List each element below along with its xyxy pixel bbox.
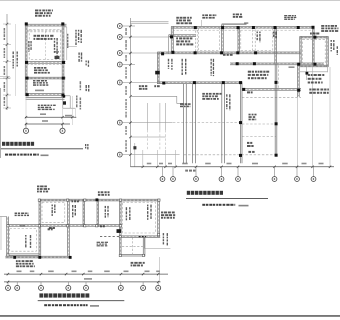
- plan2 mid wall xB: [193, 84, 196, 164]
- plan3 rotated note room2: [72, 205, 76, 217]
- plan3 note 240x a: [49, 227, 55, 229]
- plan2 rotated note x264: [273, 32, 277, 39]
- plan2 dim number: [302, 163, 307, 165]
- plan2 grid line x330: [329, 67, 331, 166]
- plan2 vert x147: [146, 103, 148, 130]
- plan2 ext line x142.8: [142, 150, 144, 166]
- plan3 left edge line: [0, 216, 7, 218]
- plan2 rotated note x168: [168, 59, 173, 70]
- plan1 title underline: [1, 148, 84, 150]
- plan1 left dim text: [4, 28, 6, 40]
- plan2 column (240.5,155.4): [239, 154, 242, 157]
- plan2 rotated note right edge: [331, 40, 335, 51]
- plan2 column (298.7,90.2): [297, 89, 300, 92]
- plan2 raised parapet line: [222, 23, 247, 25]
- plan3 note 240x b: [100, 225, 105, 227]
- plan2 wall x157: [157, 52, 159, 84]
- plan2 rotated note far right: [337, 46, 338, 55]
- plan2 axis circle x162.5: [160, 177, 165, 182]
- plan3 note above middle: [98, 191, 110, 195]
- plan2 rotated note R: [226, 94, 230, 110]
- plan2 column (240.5,82.6): [239, 81, 242, 84]
- plan3 axis circle x120.8: [118, 285, 123, 290]
- plan1 interior dashed line: [44, 31, 46, 61]
- plan2 left axis circle y154.6: [117, 152, 122, 157]
- plan2 left axis circle y37: [117, 35, 122, 40]
- plan2 axis leader line: [122, 82, 157, 84]
- plan2 column (237.8,52.8): [236, 51, 239, 54]
- plan2 axis circle x173: [171, 177, 176, 182]
- plan2 dim number: [319, 163, 324, 165]
- plan3 middle wall: [7, 225, 122, 227]
- plan1 top wall: [25, 24, 66, 26]
- plan3 rotated note room5: [147, 205, 152, 220]
- plan3 note 5L-10B: [15, 213, 29, 217]
- plan1 left dim text: [4, 82, 6, 92]
- plan3 title underline: [38, 300, 125, 302]
- plan2 note N: [309, 89, 329, 94]
- plan2 column (238,27.6): [237, 26, 240, 29]
- plan3 open column (120.3,236.6): [119, 236, 121, 238]
- plan2 dashed vert x253: [252, 30, 254, 52]
- plan3 open column (7.9,255.0): [7, 254, 9, 256]
- plan3 rotated note room4: [126, 207, 131, 220]
- plan3 rotated note room3: [105, 206, 109, 218]
- plan2 left dim text: [125, 67, 127, 79]
- plan2 wall x240 lower: [240, 82, 242, 163]
- plan3 step line y248: [144, 248, 170, 250]
- plan2 column (223.3,82.6): [222, 81, 225, 84]
- plan2 left axis circle y82.5: [117, 80, 122, 85]
- plan2 wall x221 upper: [222, 24, 224, 52]
- plan1 extension line: [15, 24, 17, 96]
- plan2 note V: [247, 142, 254, 147]
- plan3 note above left: [37, 186, 50, 193]
- plan2 small room left line: [168, 35, 170, 54]
- plan2 left dim line: [130, 18, 132, 167]
- float note c: [85, 144, 89, 149]
- plan1 left leader b: [0, 78, 10, 80]
- plan2 note D: [284, 15, 296, 20]
- plan1 column top-right: [61, 22, 64, 25]
- plan1 column mid-right: [62, 61, 65, 64]
- plan2 column (163.8,83.0): [162, 82, 165, 85]
- plan1 right outer line: [66, 27, 68, 60]
- plan2 left dim text: [125, 126, 127, 135]
- plan2 mid wall xC: [222, 84, 225, 164]
- plan2 ext line x175.7: [175, 150, 177, 166]
- plan3 open column (158.9,200.1): [158, 199, 160, 201]
- plan2 column (194.4,82.6): [193, 81, 196, 84]
- plan2 left axis circle y53: [117, 51, 122, 56]
- plan1 step column: [63, 95, 65, 97]
- plan2 dashed line y136: [242, 136, 276, 138]
- plan2 small room top wall: [169, 35, 196, 37]
- plan1 right annotation lower: [78, 53, 82, 62]
- plan2 dashed vert x278: [278, 66, 280, 89]
- plan3 note below stair: [131, 262, 145, 267]
- plan2 axis circle x274.5: [272, 177, 277, 182]
- plan2 wall x238 upper: [238, 27, 240, 52]
- plan2 ext line x165.5: [165, 150, 167, 166]
- plan3 dim 178: [20, 225, 26, 227]
- plan2 mid wall xA: [184, 84, 187, 164]
- plan1 dim 363: [42, 120, 48, 122]
- plan2 bottom dim line: [131, 166, 335, 168]
- plan2 grid line x312: [311, 65, 313, 166]
- plan2 axis circle x238: [236, 177, 241, 182]
- plan2 axis leader line: [122, 122, 172, 124]
- plan2 left dim text: [125, 99, 127, 110]
- plan1 right dim text a: [80, 81, 82, 90]
- plan2 dim 180: [289, 66, 295, 68]
- float note b: [86, 85, 90, 92]
- plan2 note C: [233, 14, 243, 18]
- plan2 axis leader line: [122, 64, 135, 66]
- plan2 note K: [248, 71, 269, 80]
- plan3 open column (96.7,225.8): [96, 225, 98, 227]
- plan2 dim number: [252, 163, 258, 165]
- plan2 dashed line y97: [242, 96, 301, 98]
- plan3 axis circle x41: [39, 285, 44, 290]
- plan2 wall x275 upper: [275, 28, 277, 64]
- plan2 dim number: [159, 163, 163, 165]
- plan1 column right y78: [62, 77, 65, 80]
- plan1 middle wall: [26, 62, 66, 64]
- plan3 left wall: [7, 217, 9, 257]
- plan2 dashed wall y89: [242, 89, 301, 91]
- plan2 note M: [308, 74, 325, 84]
- plan3 open column (7.9,225.8): [7, 225, 9, 227]
- plan2 column (314.9,37.2): [313, 36, 316, 39]
- plan3 stair right wall: [143, 237, 145, 256]
- plan3 total dim 960: [84, 278, 92, 280]
- plan3 rotated note right of stair: [163, 233, 168, 245]
- plan1 left dim line: [6, 14, 8, 110]
- plan2 column (221.6,52.8): [220, 51, 223, 54]
- plan3 note left of stair: [97, 242, 108, 247]
- plan3 open column (84.8,225.8): [84, 225, 86, 227]
- plan2 column x307: [306, 72, 309, 75]
- plan3 axis circle x68.3: [66, 285, 71, 290]
- plan3 room4 inner dashed: [123, 202, 156, 233]
- plan3 note right of plan: [161, 212, 175, 219]
- plan2 right room top wall: [300, 36, 329, 38]
- plan2 right room bottom wall: [300, 65, 329, 67]
- plan2 note Q: [202, 93, 221, 100]
- plan1 left inner rotated text: [28, 41, 31, 52]
- plan1 subtitle elevation: [41, 155, 49, 157]
- plan3 dim line 1: [4, 273, 168, 275]
- plan2 subtitle: [202, 204, 235, 206]
- plan2 column (243.7,89.4): [242, 88, 245, 91]
- plan3 subtitle: [44, 304, 87, 306]
- plan3 wall x68: [68, 199, 70, 256]
- plan3 rotated note room1: [52, 205, 56, 216]
- plan3 open column (39.3,200.1): [38, 199, 40, 201]
- plan2 rotated note x210: [211, 59, 215, 76]
- plan2 column (276.1,123.8): [275, 122, 278, 125]
- plan1 right dim text b: [76, 96, 78, 108]
- plan2 column (195.3,27.6): [194, 26, 197, 29]
- plan2 room inner dashed B: [241, 28, 273, 50]
- plan3 note J-4: [48, 228, 53, 230]
- plan1 column bottom-right: [62, 94, 65, 97]
- plan2 column (254.4,63.7): [253, 62, 256, 65]
- plan2 wall y63: [230, 63, 324, 65]
- plan2 right room left wall: [300, 36, 302, 63]
- plan2 short vert x306: [305, 67, 307, 80]
- plan1 column mid-left: [25, 61, 28, 64]
- plan2 left dim text: [125, 86, 127, 95]
- plan3 open column (39.3,225.8): [38, 225, 40, 227]
- plan2 left outer wall: [171, 26, 173, 51]
- plan1 dim 483: [40, 113, 46, 115]
- plan3 stair bottom wall: [120, 254, 145, 256]
- plan3 dim number: [88, 271, 93, 273]
- plan2 axis circle x313.5: [311, 177, 316, 182]
- plan1 note above top wall: [35, 10, 53, 17]
- plan2 left dim text: [125, 28, 127, 35]
- plan1 axis circle 7: [60, 128, 65, 133]
- plan2 note B leader: [201, 20, 203, 27]
- plan2 line y96: [131, 95, 177, 97]
- plan1 right dim text c: [80, 98, 82, 110]
- plan2 column (314.9,64.2): [313, 63, 316, 66]
- plan3 dim number: [104, 271, 110, 273]
- float note a: [86, 61, 90, 67]
- plan2 grid line x297: [296, 97, 298, 166]
- plan3 axis circle x143.1: [141, 285, 146, 290]
- plan2 column (237.2,63.7): [236, 62, 239, 65]
- plan2 dashed vert x195: [194, 27, 196, 52]
- plan3 dim line 2: [4, 281, 161, 283]
- plan2 second ext line: [134, 143, 136, 167]
- plan2 left dim text: [125, 55, 127, 61]
- plan3 column (96.9,199.8): [96, 198, 99, 201]
- plan3 dim number: [145, 271, 150, 273]
- plan1 dim line 2: [25, 123, 70, 125]
- plan1 right wall rotated note: [67, 34, 68, 48]
- plan2 room inner dashed A: [199, 28, 220, 50]
- plan3 bottom wall band: [5, 256, 71, 258]
- plan2 vert x160: [159, 103, 161, 130]
- plan3 open column (120.5,225.8): [119, 225, 121, 227]
- plan3 column (14.7,257.4): [13, 256, 16, 259]
- plan2 column (171.5,36.9): [170, 35, 173, 38]
- plan3 rotated note lower-left room: [25, 235, 31, 248]
- plan1 bottom wall second band: [26, 98, 65, 100]
- plan2 title: [187, 191, 223, 195]
- plan2 wall x297: [298, 64, 300, 98]
- plan2 note U: [249, 114, 257, 121]
- plan1 top room inner dashed outline: [29, 30, 60, 60]
- plan2 small room note: [176, 37, 193, 45]
- plan2 note beam size: [223, 54, 233, 56]
- plan2 vert x166: [165, 103, 167, 130]
- plan2 axis leader line: [122, 36, 171, 38]
- plan2 left dim text: [125, 112, 127, 118]
- plan2 left axis circle y64.5: [117, 62, 122, 67]
- plan3 title: [39, 293, 89, 297]
- plan2 note left lower b: [154, 85, 159, 87]
- plan1 left wall: [25, 23, 27, 96]
- plan3 wall x96: [97, 199, 99, 227]
- plan3 wall y236: [122, 236, 160, 238]
- plan3 axis circle x17.2: [15, 285, 20, 290]
- plan2 dim number: [227, 163, 232, 165]
- plan3 open column (84.8,200.1): [84, 199, 86, 201]
- plan3 open column (120.5,200.1): [119, 199, 121, 201]
- plan2 column (172.9,52.3): [171, 51, 174, 54]
- plan2 axis leader line: [122, 52, 157, 54]
- plan2 top wall: [171, 26, 313, 28]
- plan2 column (195.1,52.8): [194, 51, 197, 54]
- plan3 axis circle x86: [84, 285, 89, 290]
- plan1 left dim text: [4, 48, 6, 58]
- plan3 dim number: [156, 271, 160, 273]
- plan2 rotated note x181: [182, 59, 187, 75]
- plan3 wall x120: [119, 199, 121, 256]
- plan2 note T: [247, 91, 253, 93]
- plan1 title: [2, 142, 34, 146]
- plan3 stair dashed: [122, 246, 143, 248]
- plan1 note below top wall: [34, 35, 54, 40]
- plan3 lower-left room bottom: [7, 254, 40, 256]
- plan2 step line y72: [300, 71, 328, 73]
- plan3 dim number: [17, 271, 22, 273]
- plan3 subtitle scale: [90, 305, 99, 307]
- plan1 left dim text: [4, 66, 6, 75]
- plan3 dim number: [124, 271, 129, 273]
- plan2 column (162.6,53.8): [161, 52, 164, 55]
- plan2 column (313,27.3): [312, 26, 315, 29]
- plan1 lower middle wall: [26, 77, 66, 79]
- plan3 note below bottom wall: [16, 260, 35, 267]
- plan1 column bottom-left: [26, 93, 29, 96]
- plan2 dim number: [168, 163, 172, 165]
- plan3 room1 inner dashed: [42, 202, 65, 222]
- plan2 note B: [202, 14, 216, 18]
- plan3 dim number: [30, 271, 35, 273]
- plan3 open column (67.6,225.8): [67, 225, 69, 227]
- plan1 left leader a: [0, 75, 10, 77]
- plan1 note 20.056: [35, 90, 44, 92]
- plan1 tiny dim 287: [55, 51, 59, 53]
- plan2 dashed line y155: [184, 154, 276, 156]
- plan3 right wall: [158, 199, 160, 237]
- plan1 axis circle 6: [23, 128, 28, 133]
- plan2 column (240.5,122.6): [239, 121, 242, 124]
- plan1 column top-left: [25, 22, 28, 25]
- plan2 wall y82: [157, 82, 242, 84]
- plan2 wall x312: [312, 27, 314, 65]
- plan3 dark dash x139: [139, 236, 146, 238]
- plan2 column (276.0,82.4): [275, 81, 278, 84]
- plan2 note S: [180, 103, 191, 107]
- plan2 note A: [176, 17, 192, 24]
- plan2 column (275,27.5): [274, 26, 277, 29]
- plan2 dim number: [282, 163, 288, 165]
- plan1 note room3: [33, 80, 48, 86]
- plan2 dim number: [147, 163, 152, 165]
- plan1 bottom wall: [26, 94, 65, 96]
- plan2 ext line x157.3: [156, 150, 158, 166]
- plan2 left axis circle y26: [117, 24, 122, 29]
- plan2 wall x275 lower: [275, 64, 277, 157]
- plan3 lower-left room inner dashed: [10, 229, 37, 252]
- plan2 right room inner dashed: [303, 39, 326, 63]
- plan3 open column (158.6,234.7): [158, 234, 160, 236]
- plan2 step x176: [176, 96, 178, 103]
- page bottom rule: [0, 315, 340, 317]
- plan3 far left line: [0, 217, 2, 251]
- plan2 column (222.6,27.6): [221, 26, 224, 29]
- plan3 open column (143.4,255.4): [142, 254, 144, 256]
- plan3 open column (67.6,200.1): [67, 199, 69, 201]
- plan2 axis leader line: [122, 154, 179, 156]
- plan1 column left y78: [26, 77, 29, 80]
- plan3 dim number: [48, 271, 54, 273]
- plan3 dark dashes y236: [100, 236, 122, 238]
- plan1 left annotation stack: [13, 52, 18, 69]
- plan2 column (255.6,52.8): [254, 51, 257, 54]
- plan3 wall x85: [83, 199, 85, 227]
- plan2 title underline: [186, 197, 268, 199]
- plan3 column (39.8,257.4): [38, 256, 41, 259]
- plan2 axis circle x221.5: [219, 177, 224, 182]
- plan1 subtitle: [5, 154, 39, 156]
- plan3 ext line right: [159, 257, 161, 280]
- plan2 axis circle x196: [194, 177, 199, 182]
- plan2 left axis circle y122.6: [117, 120, 122, 125]
- plan2 left dim text: [125, 140, 127, 152]
- plan2 dim number: [182, 163, 188, 165]
- plan2 left dim text: [125, 40, 127, 50]
- plan3 top wall: [39, 199, 160, 201]
- plan2 note W: [248, 151, 254, 153]
- plan3 dim number: [72, 271, 77, 273]
- plan1 dim line 1: [25, 116, 76, 118]
- plan1 step line: [63, 95, 70, 97]
- plan3 axis circle x158.2: [156, 285, 161, 290]
- plan2 column (298.7,64.2): [297, 63, 300, 66]
- plan3 open column (120.3,255.5): [119, 254, 121, 256]
- plan1 extension to dim: [71, 96, 73, 125]
- plan2 rotated note x254: [257, 32, 261, 43]
- plan2 dashed line y123: [173, 122, 240, 124]
- plan2 note E topright: [321, 25, 338, 32]
- plan2 column (276.1,155.2): [275, 154, 278, 157]
- plan2 dim number: [205, 163, 211, 165]
- page border fragment left: [0, 88, 2, 158]
- plan2 column (298.2,27.5): [297, 26, 300, 29]
- plan1 right wall: [62, 23, 64, 96]
- plan3 note 240x: [72, 200, 79, 202]
- plan3 wall x39: [39, 199, 41, 256]
- plan1 left dim text: [4, 97, 6, 106]
- plan2 dashed row below top wall: [173, 29, 313, 31]
- plan3 column (70.2,257.4): [69, 256, 72, 259]
- plan2 line y137: [131, 136, 166, 138]
- plan2 note F: [310, 33, 319, 35]
- plan3 axis circle x8: [6, 285, 11, 290]
- plan1 right inner rotated text: [54, 38, 58, 56]
- plan2 long wall y52: [157, 52, 301, 54]
- plan2 subtitle elevation: [239, 205, 249, 207]
- plan2 column (253.4,27.5): [252, 26, 255, 29]
- plan2 note left lower a: [139, 85, 147, 90]
